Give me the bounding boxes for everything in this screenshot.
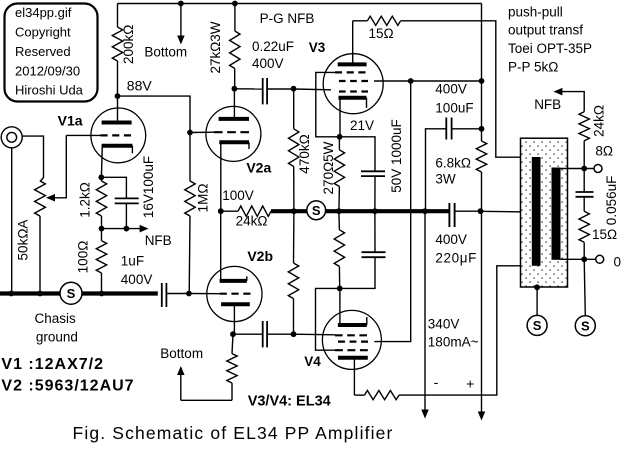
wire jack to pot [22, 136, 44, 181]
svg-text:S: S [67, 286, 76, 301]
svg-text:+: + [466, 376, 474, 392]
tube V2b grid [220, 293, 251, 295]
svg-text:el34pp.gif: el34pp.gif [15, 5, 72, 20]
junction cap bottom [124, 226, 130, 232]
ground bus right [326, 209, 425, 213]
svg-text:8Ω: 8Ω [595, 144, 613, 159]
capacitor 16V100uF [115, 197, 139, 199]
tube V2a plate [219, 117, 249, 121]
tube V2b cathode (top) [220, 279, 247, 283]
tube V3 g3 tie to cathode [316, 72, 340, 136]
svg-text:0: 0 [614, 255, 622, 270]
svg-text:400V: 400V [435, 82, 467, 97]
svg-text:S: S [581, 318, 590, 333]
tube V3 envelope [323, 54, 383, 114]
ground bus left [0, 291, 158, 295]
svg-text:100uF: 100uF [435, 100, 473, 115]
svg-text:100V: 100V [222, 188, 254, 203]
resistor 1.2k [100, 177, 102, 181]
svg-text:470kΩ: 470kΩ [297, 134, 312, 173]
wire 88V to V2a grid [118, 96, 191, 132]
resistor 24k [238, 206, 271, 216]
svg-text:V4: V4 [304, 354, 321, 369]
junction top rail / bottom arrow [178, 1, 184, 7]
capacitor 100uF [445, 118, 447, 140]
terminal 8R [594, 165, 602, 173]
svg-text:V1 :12AX7/2: V1 :12AX7/2 [1, 356, 104, 373]
capacitor coupling V4 [262, 321, 264, 347]
junction 0 node [581, 256, 587, 262]
svg-text:400V: 400V [252, 56, 284, 71]
junction V2a plate/27k [232, 86, 238, 92]
wire minus lead [424, 211, 426, 411]
svg-text:Toei OPT-35P: Toei OPT-35P [508, 41, 592, 56]
pot wiper wire [55, 135, 66, 197]
tube V2a grid [214, 131, 249, 133]
svg-text:Hiroshi Uda: Hiroshi Uda [15, 83, 84, 98]
junction 270R ground [336, 208, 342, 214]
junction 8R node [581, 166, 587, 172]
junction V4 grid node [291, 331, 297, 337]
tube V3 cathode [339, 96, 367, 100]
tube V4 cathode (top) [338, 323, 367, 327]
svg-text:push-pull: push-pull [508, 5, 563, 20]
svg-text:340V: 340V [428, 316, 460, 331]
svg-text:S: S [533, 318, 542, 333]
junction jack ground [8, 291, 14, 297]
wire V3 screen to supply [374, 80, 482, 82]
chassis S (mid) [307, 201, 326, 220]
svg-text:V2a: V2a [246, 159, 271, 175]
tube V3 g2 screen [339, 80, 368, 82]
junction V4 cathode [337, 286, 343, 292]
svg-text:V2b: V2b [247, 248, 273, 264]
svg-text:Chasis: Chasis [35, 311, 77, 326]
wire plate to cap2 [233, 333, 263, 335]
resistor 15R zobel [583, 197, 585, 212]
svg-text:V2 :5963/12AU7: V2 :5963/12AU7 [1, 378, 134, 395]
tube V2b envelope [207, 266, 262, 321]
svg-text:15Ω: 15Ω [369, 26, 394, 41]
chassis ground S [60, 282, 82, 304]
wire NFB [102, 228, 143, 230]
wire secondary top [561, 168, 595, 170]
tube V1a grid [101, 134, 132, 136]
resistor 6.8k3W [476, 141, 486, 172]
wire cathode to 1000uF [340, 137, 375, 172]
junction V1a cathode [98, 174, 104, 180]
resistor 270R 5W [338, 137, 340, 150]
svg-text:1MΩ: 1MΩ [195, 184, 210, 213]
svg-text:Reserved: Reserved [15, 44, 71, 59]
wire bus to 220uF [425, 209, 449, 213]
resistor 200k leads [117, 4, 119, 28]
wire plate to cap [234, 88, 262, 90]
junction V2b grid node [186, 291, 192, 297]
arrow NFB feed [553, 88, 562, 96]
resistor 470k [293, 89, 295, 129]
tube V4 g3 suppressor [335, 349, 368, 351]
junction screen line top [408, 78, 414, 84]
wire 220uF to B+ [455, 210, 481, 212]
svg-text:output transf: output transf [508, 23, 583, 38]
wire B+ top rail [118, 3, 482, 5]
svg-text:88V: 88V [127, 78, 153, 94]
potentiometer 50kA [35, 181, 46, 216]
resistor 24k leads [221, 210, 238, 212]
tube V3 plate [338, 62, 367, 66]
wire bypass bottom [340, 257, 375, 288]
tube V3 g3 suppressor [335, 71, 366, 73]
svg-text:100Ω: 100Ω [75, 241, 90, 274]
wire cathode to cap [101, 177, 126, 198]
chassis S (secondary) [575, 316, 595, 336]
wire screen drop [374, 81, 410, 342]
wire 15R to primary top [401, 21, 532, 157]
svg-text:V1a: V1a [58, 113, 83, 129]
node 88V junction [115, 93, 121, 99]
svg-text:V3/V4: EL34: V3/V4: EL34 [248, 394, 331, 410]
svg-text:NFB: NFB [145, 233, 172, 248]
junction top rail / 27k [232, 1, 238, 7]
svg-text:0.22uF: 0.22uF [252, 39, 294, 54]
resistor 100R [101, 229, 103, 241]
capacitor 220uF [448, 203, 450, 227]
arrow to bottom supply (top) [180, 4, 182, 39]
capacitor V4 bypass [362, 251, 386, 253]
wire B+ to primary CT [481, 210, 532, 213]
wire secondary bottom [561, 258, 596, 260]
wire tail to bottom arrow [181, 399, 232, 401]
tube V2a grid lead [190, 131, 214, 133]
resistor 200k [112, 27, 122, 61]
wire B+ down right [481, 4, 483, 142]
transformer OPT box [521, 138, 568, 287]
tube V4 g3 tie [316, 288, 340, 350]
junction transformer frame [534, 284, 540, 290]
pot wiper arrow [46, 194, 55, 202]
capacitor 0.22uF [262, 78, 264, 104]
tube V1a plate [102, 121, 132, 125]
svg-text:Copyright: Copyright [15, 24, 71, 39]
junction 470k ground [291, 208, 297, 214]
junction bus end [422, 208, 428, 214]
tube V1a grid lead [66, 134, 100, 136]
junction V3 cathode [337, 134, 343, 140]
wire cap2 to grid node [267, 333, 293, 335]
arrow to bottom supply (lower) [180, 372, 182, 400]
svg-text:400V: 400V [121, 272, 153, 287]
wire 1000uF to ground [374, 176, 376, 211]
tube V1a cathode [102, 144, 133, 148]
capacitor 1uF [161, 283, 163, 307]
svg-text:0.056uF: 0.056uF [604, 176, 619, 226]
resistor V4 plate-route [354, 394, 364, 396]
svg-text:50V 1000uF: 50V 1000uF [389, 119, 404, 193]
svg-text:27kΩ3W: 27kΩ3W [208, 21, 223, 73]
svg-text:6.8kΩ: 6.8kΩ [435, 155, 471, 170]
svg-text:400V: 400V [435, 232, 467, 247]
arrow NFB out [140, 225, 149, 233]
svg-text:15Ω: 15Ω [592, 227, 617, 242]
resistor 27k3W leads [234, 4, 236, 32]
wire V3 g1 [294, 88, 332, 91]
junction B+/100uF [479, 126, 485, 132]
wire 0 to ground [584, 259, 585, 315]
svg-text:3W: 3W [435, 171, 456, 186]
transformer secondary bar [552, 168, 561, 260]
svg-text:24kΩ: 24kΩ [236, 214, 268, 229]
resistor 1M [189, 133, 191, 182]
resistor 24k NFB [583, 141, 585, 169]
wire 24k to S thick [271, 209, 307, 213]
tube V3 g1 dashes [339, 90, 368, 92]
svg-text:50kΩA: 50kΩA [15, 220, 30, 261]
wire 100uF right [452, 128, 482, 130]
tube V2a cathode [219, 140, 249, 144]
svg-text:NFB: NFB [534, 97, 561, 112]
terminal 0 [596, 255, 604, 263]
info box [5, 4, 98, 102]
wire plus lead [481, 211, 483, 413]
chassis S (transformer) [527, 315, 547, 335]
wire 1uF to grid node [166, 293, 189, 295]
svg-text:180mA~: 180mA~ [428, 335, 479, 350]
transformer primary bar [532, 157, 541, 266]
junction B+/screen [479, 78, 485, 84]
wire pot to bus [39, 216, 41, 294]
wire bypass top [374, 211, 376, 252]
wire cap to NFB node [125, 203, 127, 228]
resistor V2b tail [232, 334, 233, 353]
svg-text:2012/09/30: 2012/09/30 [15, 63, 80, 78]
capacitor 50V1000uF [361, 170, 385, 172]
wire V3 plate to 15R [353, 20, 368, 22]
svg-text:220μF: 220μF [435, 251, 477, 266]
junction pot ground [37, 291, 43, 297]
svg-text:P-P 5kΩ: P-P 5kΩ [508, 60, 558, 75]
svg-text:1uF: 1uF [121, 254, 144, 269]
junction V3 grid node [291, 86, 297, 92]
wire jack ground [11, 148, 13, 294]
tube V4 g1 dashes [335, 334, 367, 336]
tube V2a envelope [206, 106, 261, 161]
junction V2b plate [230, 331, 236, 337]
resistor V4 cathode R [338, 211, 341, 230]
svg-text:200kΩ: 200kΩ [121, 25, 136, 64]
tube V4 envelope [322, 310, 381, 369]
resistor 15R top [367, 16, 400, 25]
junction 100R ground [99, 291, 105, 297]
tube V4 g2 screen [338, 341, 368, 343]
junction 1.2k/100R [99, 226, 105, 232]
junction B+ node [478, 208, 484, 214]
resistor V4 gridleak [293, 211, 295, 263]
svg-text:ground: ground [36, 330, 78, 345]
svg-text:21V: 21V [350, 118, 374, 133]
svg-text:P-G NFB: P-G NFB [260, 11, 315, 26]
junction V2a cathode/24k [218, 208, 224, 214]
wire frame ground [536, 287, 538, 315]
svg-text:1.2kΩ: 1.2kΩ [78, 182, 93, 218]
wire V4 g1 [294, 333, 336, 336]
svg-text:16V100uF: 16V100uF [141, 156, 156, 218]
tube V1a envelope [91, 108, 146, 163]
tube V4 plate (bottom) [338, 356, 368, 360]
svg-text:Bottom: Bottom [144, 45, 187, 60]
svg-text:V3: V3 [309, 40, 326, 55]
resistor 27k3W [230, 31, 240, 69]
svg-text:Bottom: Bottom [160, 346, 203, 361]
capacitor 0.056uF [583, 169, 585, 193]
tube V2b plate (bottom) [221, 302, 250, 306]
input jack [1, 127, 22, 148]
svg-text:Fig. Schematic of EL34 PP Am: Fig. Schematic of EL34 PP Amplifier [73, 423, 394, 443]
svg-text:-: - [434, 374, 439, 390]
junction 1000uF ground [372, 208, 378, 214]
wire cap to V3 grid node [267, 88, 293, 90]
tube V2b grid lead [189, 293, 220, 295]
svg-text:24kΩ: 24kΩ [591, 105, 606, 137]
svg-text:270Ω5W: 270Ω5W [321, 141, 336, 194]
wire 100uF left bracket [426, 129, 447, 211]
svg-text:S: S [312, 203, 321, 218]
junction V2a grid [187, 130, 193, 136]
